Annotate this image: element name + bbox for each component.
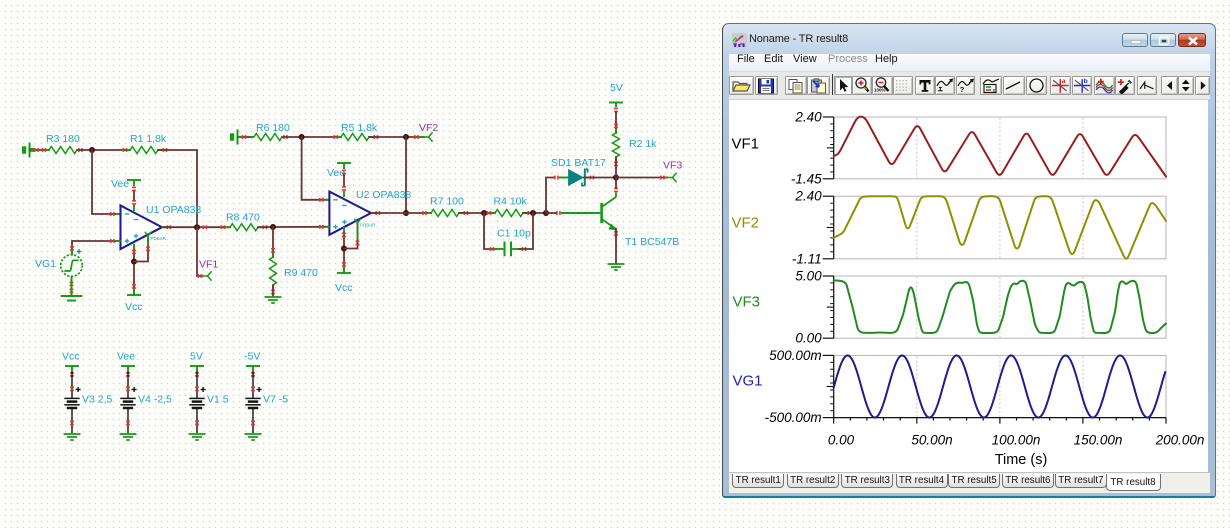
svg-text:R5 1,8k: R5 1,8k: [341, 122, 378, 134]
svg-text:R2 1k: R2 1k: [629, 138, 657, 150]
svg-text:R3 180: R3 180: [46, 133, 80, 145]
svg-text:5V: 5V: [610, 82, 623, 94]
svg-text:V4 -2,5: V4 -2,5: [138, 394, 172, 406]
svg-text:100%: 100%: [874, 88, 886, 93]
svg-text:T1 BC547B: T1 BC547B: [625, 236, 679, 248]
svg-text:a: a: [1062, 78, 1066, 85]
svg-text:Vcc: Vcc: [125, 301, 143, 313]
svg-text:U1 OPA838: U1 OPA838: [146, 204, 201, 216]
svg-text:R1 1,8k: R1 1,8k: [130, 133, 167, 145]
svg-text:R6 180: R6 180: [256, 122, 290, 134]
svg-text:VG1: VG1: [35, 258, 56, 270]
svg-text:5V: 5V: [190, 351, 203, 363]
svg-text:V3 2,5: V3 2,5: [82, 394, 113, 406]
svg-text:x: x: [992, 88, 995, 94]
svg-text:R8 470: R8 470: [226, 212, 260, 224]
svg-text:PDBAR: PDBAR: [151, 236, 167, 241]
svg-text:PDBAR: PDBAR: [360, 223, 376, 228]
svg-text:Vee: Vee: [111, 178, 129, 190]
svg-text:V7 -5: V7 -5: [263, 394, 288, 406]
svg-text:Vcc: Vcc: [335, 282, 353, 294]
svg-text:C1 10p: C1 10p: [497, 228, 531, 240]
svg-text:U2 OPA838: U2 OPA838: [356, 189, 411, 201]
svg-text:-5V: -5V: [244, 351, 260, 363]
svg-text:Vee: Vee: [117, 351, 135, 363]
svg-text:?: ?: [959, 85, 964, 94]
svg-text:V1 5: V1 5: [207, 394, 229, 406]
svg-text:R4 10k: R4 10k: [494, 196, 528, 208]
svg-text:Vcc: Vcc: [62, 351, 80, 363]
svg-text:VF3: VF3: [663, 160, 682, 172]
svg-text:R9 470: R9 470: [284, 267, 318, 279]
svg-text:VF2: VF2: [419, 122, 438, 134]
svg-text:R7 100: R7 100: [430, 196, 464, 208]
svg-text:SD1 BAT17: SD1 BAT17: [551, 157, 606, 169]
svg-text:b: b: [1083, 78, 1087, 85]
svg-text:VF1: VF1: [199, 259, 218, 271]
